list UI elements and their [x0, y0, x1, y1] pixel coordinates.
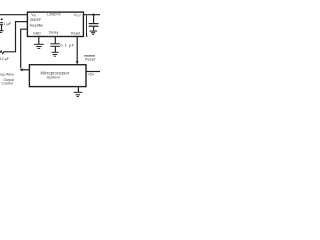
svg-text:LM9070: LM9070 [47, 13, 60, 17]
svg-text:12 µF: 12 µF [0, 57, 10, 61]
svg-text:Reset: Reset [71, 32, 80, 36]
svg-text:1 µF: 1 µF [3, 21, 12, 26]
svg-text:GND: GND [33, 32, 41, 36]
svg-text:ON/OFF: ON/OFF [30, 18, 42, 22]
svg-text:Keep-Alive: Keep-Alive [0, 73, 14, 77]
svg-text:+5V: +5V [87, 73, 94, 77]
svg-text:Reset: Reset [85, 56, 96, 61]
svg-text:Control: Control [1, 82, 13, 86]
svg-text:0.1 µF: 0.1 µF [60, 43, 74, 48]
svg-text:Delay: Delay [49, 31, 59, 35]
svg-text:Keep Alive: Keep Alive [30, 24, 43, 28]
svg-text:System: System [47, 75, 61, 80]
